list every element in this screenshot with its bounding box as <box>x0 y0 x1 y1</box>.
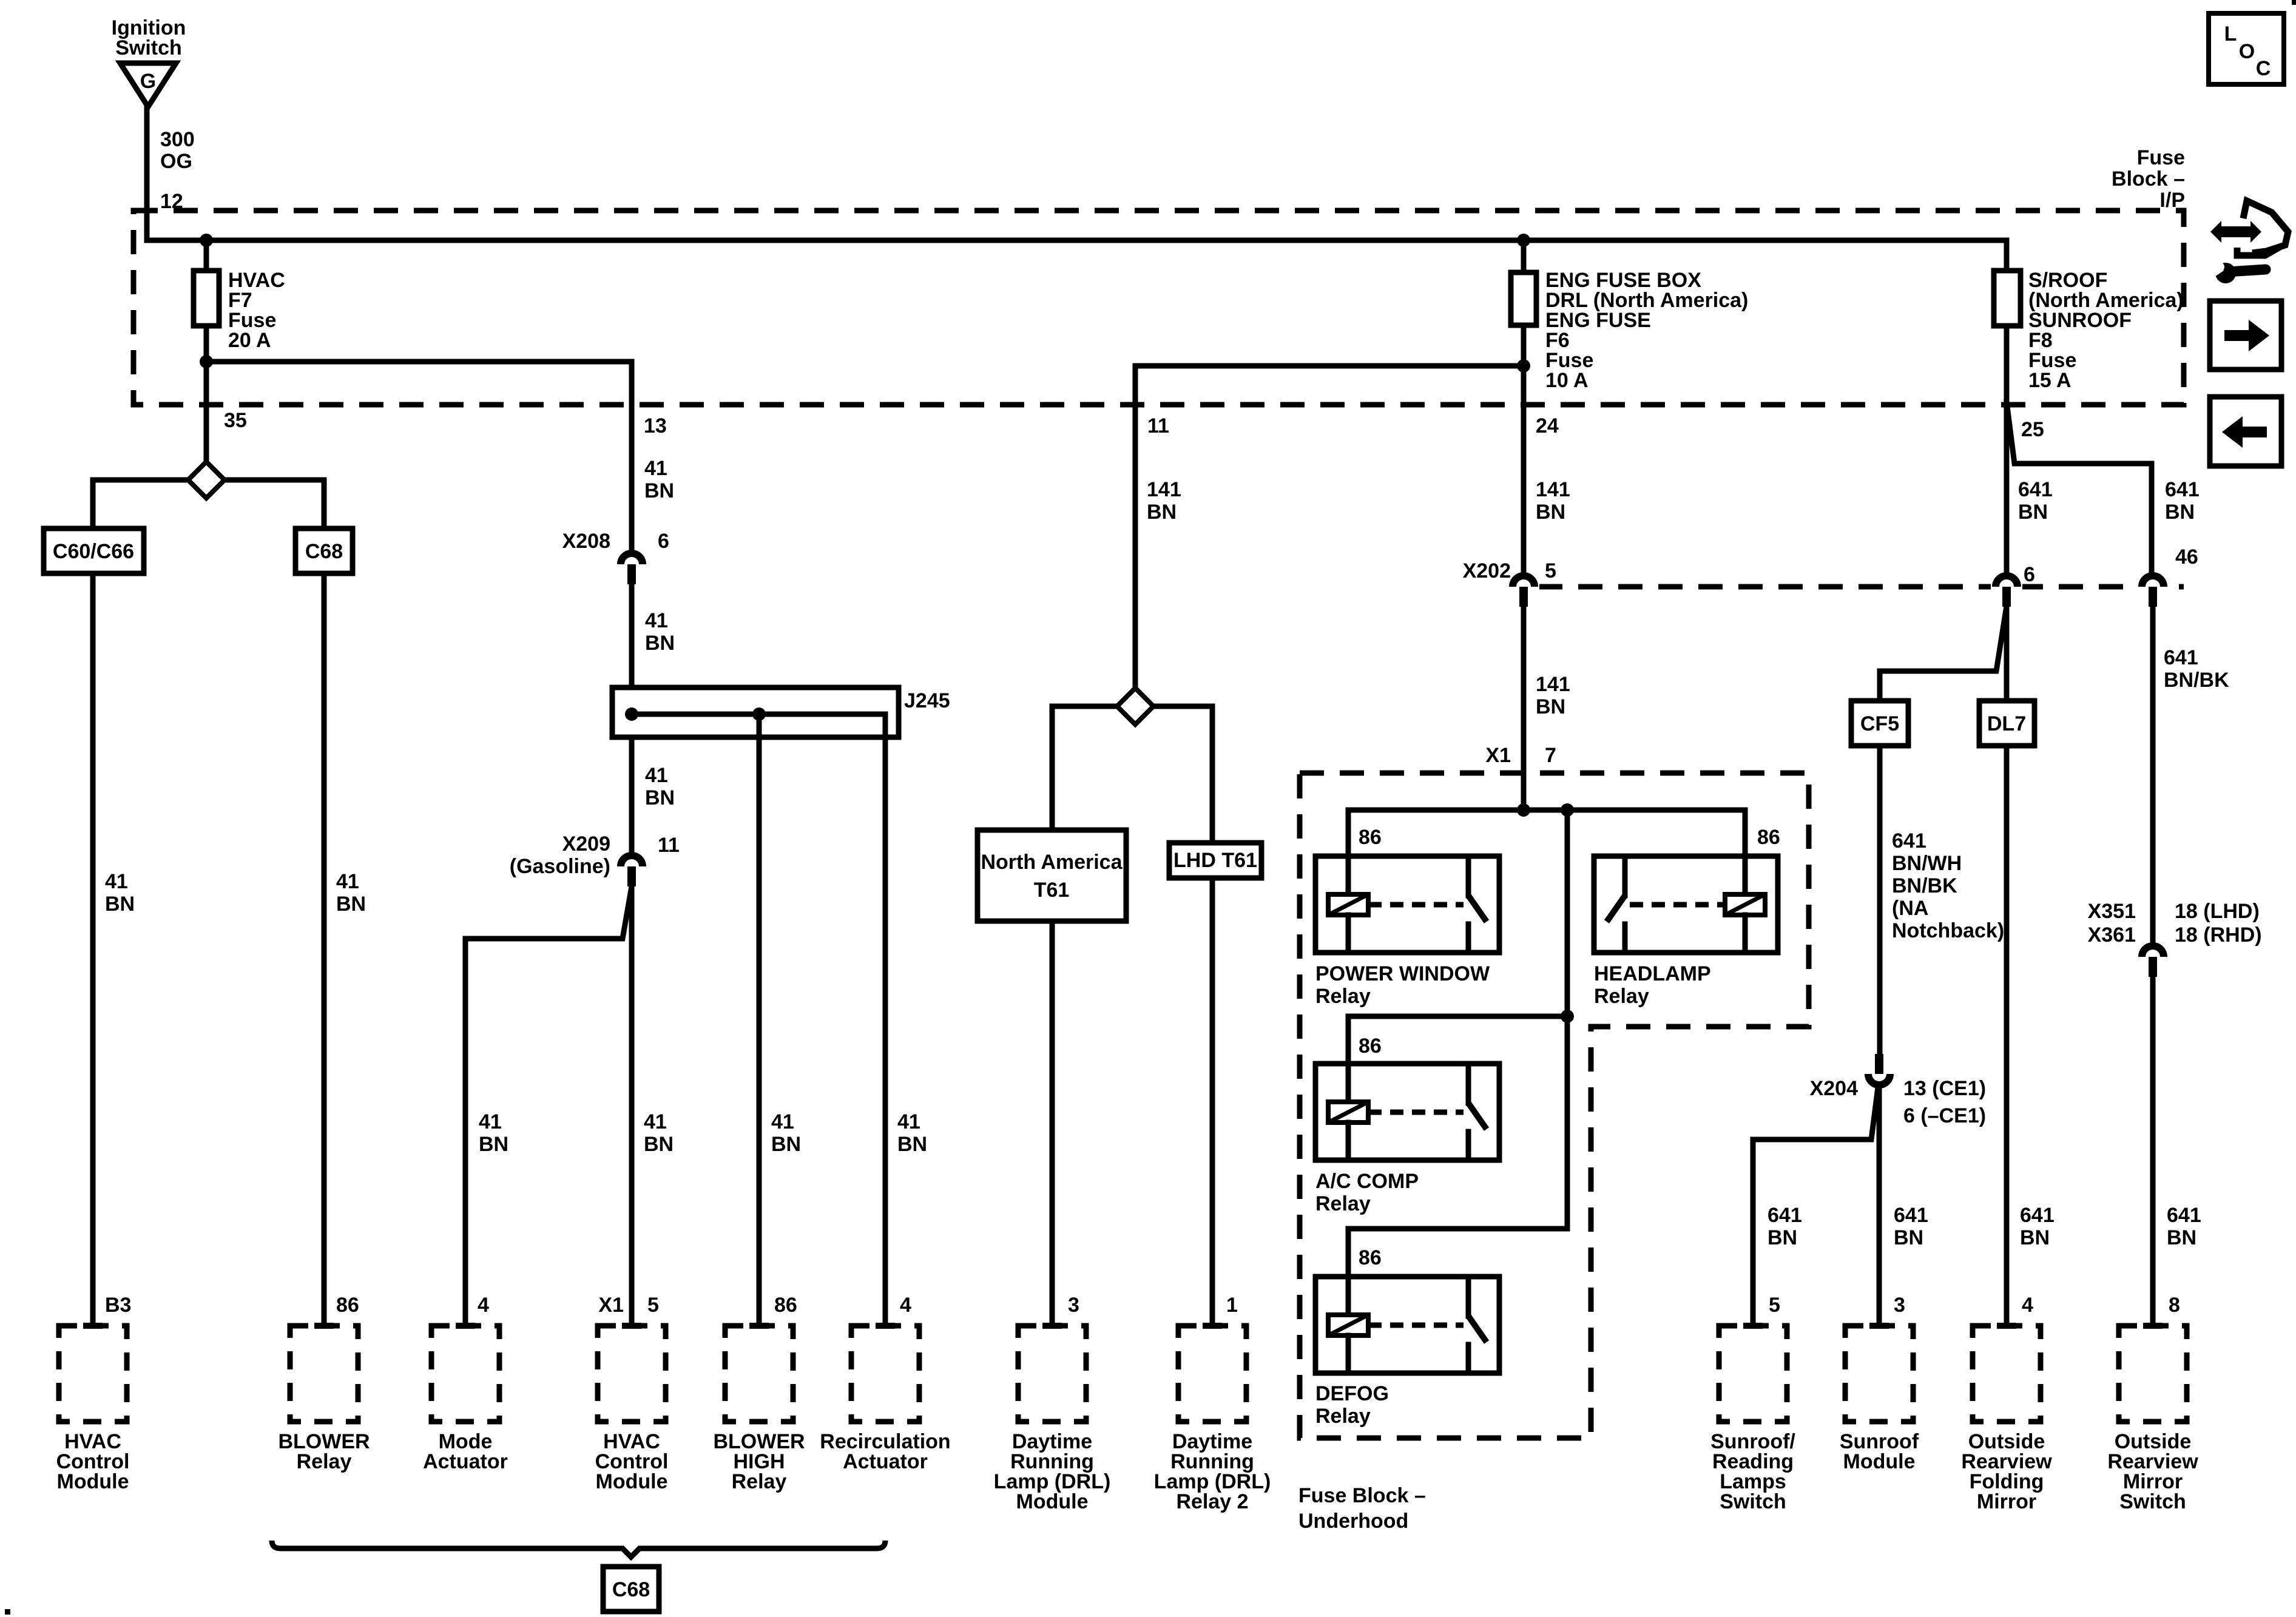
fuse block I/P dashed outline <box>133 211 2184 405</box>
wire NA T61 to DRL module pin 3 <box>1050 921 1055 1326</box>
svg-text:X1: X1 <box>598 1294 624 1317</box>
component HVAC Control Module (B3) <box>59 1326 127 1422</box>
svg-text:Switch: Switch <box>1720 1490 1786 1513</box>
component Sunroof/Reading Lamps Switch <box>1719 1326 1787 1422</box>
svg-text:G: G <box>140 70 156 93</box>
wire fork pin 6 to CF5 <box>1880 610 2006 701</box>
svg-text:L: L <box>2224 22 2237 46</box>
wire X204 to sunroof module <box>1877 1087 1882 1326</box>
component BLOWER HIGH Relay <box>725 1326 793 1422</box>
wire to LHD T61 <box>1210 706 1215 843</box>
splice diamond to C60/C66 and C68 <box>93 478 324 483</box>
connector pin 6 <box>1991 583 2022 590</box>
svg-text:41: 41 <box>645 764 668 787</box>
svg-text:25: 25 <box>2021 418 2044 441</box>
wire X351 to outside rearview mirror switch <box>2150 977 2156 1326</box>
wire to A/C comp relay 86 <box>1348 1014 1567 1019</box>
svg-text:X202: X202 <box>1463 559 1511 582</box>
svg-text:LHD T61: LHD T61 <box>1173 849 1257 872</box>
icon arrow left (previous page) <box>2210 397 2281 466</box>
svg-text:BN: BN <box>1147 501 1177 524</box>
svg-text:5: 5 <box>1769 1294 1780 1317</box>
svg-text:(Gasoline): (Gasoline) <box>510 855 610 878</box>
junction below fuse F6 <box>1517 359 1530 373</box>
J245 junction at blower high relay feed <box>752 707 766 721</box>
svg-text:86: 86 <box>1359 826 1382 849</box>
wire from F6 to pin 11 <box>1135 366 1524 689</box>
svg-text:DL7: DL7 <box>1987 712 2026 735</box>
svg-text:24: 24 <box>1536 414 1559 437</box>
bus wire from pin 12 across fuse block to fuse F8 <box>147 240 2007 271</box>
svg-text:BN: BN <box>105 893 135 916</box>
svg-text:13 (CE1): 13 (CE1) <box>1903 1077 1986 1100</box>
svg-text:X1: X1 <box>1485 744 1511 767</box>
svg-text:Module: Module <box>57 1470 129 1493</box>
junction at fuse F6 <box>1517 234 1530 247</box>
wire below DL7 to outside rearview folding mirror <box>2004 746 2010 1326</box>
svg-text:13: 13 <box>644 414 667 437</box>
wire fork X204 to sunroof/reading lamps switch <box>1753 1087 1878 1326</box>
svg-text:X209: X209 <box>562 832 610 856</box>
fuse F7 HVAC 20A <box>204 240 209 271</box>
svg-text:Relay: Relay <box>1315 985 1371 1008</box>
svg-text:46: 46 <box>2175 545 2198 569</box>
svg-text:C68: C68 <box>305 540 343 563</box>
svg-text:7: 7 <box>1545 744 1556 767</box>
svg-text:I/P: I/P <box>2159 189 2185 212</box>
svg-text:CF5: CF5 <box>1860 712 1899 735</box>
svg-text:41: 41 <box>897 1110 920 1133</box>
connector X351/X361 <box>2137 953 2169 960</box>
component Daytime Running Lamp (DRL) Relay 2 <box>1178 1326 1246 1422</box>
wire to power window relay 86 <box>1346 810 1351 856</box>
component BLOWER Relay <box>290 1326 358 1422</box>
svg-text:BN: BN <box>1536 695 1565 718</box>
svg-text:4: 4 <box>478 1294 489 1317</box>
component HVAC Control Module (X1-5) <box>598 1326 666 1422</box>
svg-text:BN: BN <box>645 786 675 809</box>
svg-text:Mirror: Mirror <box>1977 1490 2036 1513</box>
svg-text:4: 4 <box>2022 1294 2033 1317</box>
svg-text:641: 641 <box>1892 829 1926 852</box>
svg-text:Relay: Relay <box>732 1470 787 1493</box>
svg-text:POWER WINDOW: POWER WINDOW <box>1315 962 1490 985</box>
svg-text:41: 41 <box>771 1110 794 1133</box>
svg-text:BN: BN <box>336 893 366 916</box>
svg-text:141: 141 <box>1147 478 1181 501</box>
component Sunroof Module <box>1845 1326 1913 1422</box>
wire to North America T61 <box>1050 706 1055 830</box>
icon arrow right (next page) <box>2210 301 2281 370</box>
svg-text:BN: BN <box>644 1133 674 1156</box>
svg-text:641: 641 <box>2165 478 2200 501</box>
wire branch from F8 to pin 46 <box>2007 402 2152 573</box>
svg-text:Switch: Switch <box>2119 1490 2186 1513</box>
svg-text:86: 86 <box>1757 826 1780 849</box>
wire below CF5 to X204 <box>1877 746 1883 1053</box>
svg-text:C60/C66: C60/C66 <box>53 540 134 563</box>
option box LHD T61 <box>1169 843 1261 878</box>
C68 connector brace <box>272 1541 885 1557</box>
underhood relay feed bus <box>1348 808 1745 813</box>
svg-text:BN/BK: BN/BK <box>1892 874 1957 897</box>
svg-text:18 (LHD): 18 (LHD) <box>2175 900 2260 923</box>
connector X209 (Gasoline) pin 11 <box>616 863 647 870</box>
svg-text:J245: J245 <box>904 689 950 712</box>
svg-text:641: 641 <box>2164 646 2198 669</box>
svg-text:HEADLAMP: HEADLAMP <box>1594 962 1711 985</box>
svg-text:OG: OG <box>160 150 192 173</box>
fuse F8 SUNROOF 15A <box>1994 271 2021 326</box>
svg-text:Relay: Relay <box>1594 985 1649 1008</box>
option box North America T61 <box>977 830 1126 921</box>
connector X208 pin 6 <box>616 561 647 568</box>
fuse F6 ENG FUSE 10A <box>1521 240 1527 272</box>
svg-text:300: 300 <box>160 128 195 151</box>
svg-text:15 A: 15 A <box>2028 369 2071 392</box>
svg-text:141: 141 <box>1536 673 1570 696</box>
svg-text:BN/WH: BN/WH <box>1892 852 1962 875</box>
svg-text:35: 35 <box>224 409 247 432</box>
option box DL7 <box>1979 701 2034 746</box>
svg-text:Fuse: Fuse <box>2137 146 2185 169</box>
svg-text:C68: C68 <box>612 1578 650 1601</box>
svg-text:DEFOG: DEFOG <box>1315 1382 1389 1405</box>
connector X204 <box>1875 1054 1883 1074</box>
svg-text:41: 41 <box>644 1110 667 1133</box>
svg-text:86: 86 <box>1359 1035 1382 1058</box>
wire X208 to J245 and X209 <box>629 582 635 853</box>
svg-text:BN: BN <box>2018 501 2048 524</box>
wire from F7 to pin 35 <box>204 362 209 462</box>
fuse block underhood dashed outline <box>1300 773 1809 1438</box>
period mark bottom left <box>5 1609 10 1615</box>
svg-text:X208: X208 <box>562 530 610 553</box>
svg-text:T61: T61 <box>1034 879 1070 902</box>
svg-text:Actuator: Actuator <box>843 1450 928 1473</box>
svg-text:BN: BN <box>2167 1226 2196 1249</box>
svg-text:Module: Module <box>1016 1490 1089 1513</box>
junction below fuse F7 <box>200 355 213 368</box>
wire from F7 to pin 13 <box>206 362 632 551</box>
svg-text:Relay 2: Relay 2 <box>1176 1490 1248 1513</box>
wire J245 to blower high relay 86 <box>757 714 762 1326</box>
svg-text:North America: North America <box>981 851 1123 874</box>
svg-text:X361: X361 <box>2088 923 2136 947</box>
svg-text:BN: BN <box>645 632 675 655</box>
wire pin 6 to DL7 <box>2004 607 2010 701</box>
svg-text:Module: Module <box>1843 1450 1916 1473</box>
relay HEADLAMP <box>1594 856 1778 953</box>
svg-text:641: 641 <box>1894 1204 1928 1227</box>
wire 300 OG from ignition switch to fuse block bus <box>144 107 150 240</box>
svg-text:86: 86 <box>1359 1246 1382 1269</box>
svg-text:Actuator: Actuator <box>423 1450 508 1473</box>
svg-text:C: C <box>2256 57 2271 80</box>
component Outside Rearview Mirror Switch <box>2119 1326 2187 1422</box>
wire to C60/C66 <box>90 480 96 528</box>
component Outside Rearview Folding Mirror <box>1973 1326 2041 1422</box>
wire fork X209 to mode actuator <box>465 886 632 1326</box>
connector box C60/C66 <box>44 528 144 573</box>
svg-text:20 A: 20 A <box>228 329 271 352</box>
svg-text:BN: BN <box>771 1133 801 1156</box>
svg-text:641: 641 <box>2018 478 2053 501</box>
component Daytime Running Lamp (DRL) Module <box>1018 1326 1086 1422</box>
relay POWER WINDOW <box>1315 856 1499 953</box>
icon electrical repair (double arrow with body outline and wrench) <box>2210 201 2288 283</box>
svg-text:641: 641 <box>2020 1204 2055 1227</box>
junction at fuse F7 <box>200 234 213 247</box>
ignition switch symbol G (triangle) <box>120 63 176 107</box>
svg-text:BN: BN <box>1894 1226 1923 1249</box>
wire X202 pin 5 to fuse block underhood X1-7 <box>1521 607 1527 810</box>
connector X202 pin 5 <box>1508 583 1539 590</box>
svg-text:Module: Module <box>596 1470 668 1493</box>
wire X209 to HVAC control module X1-5 <box>629 886 635 1326</box>
svg-text:641: 641 <box>1768 1204 1802 1227</box>
svg-text:41: 41 <box>479 1110 502 1133</box>
svg-text:3: 3 <box>1894 1294 1905 1317</box>
wire to C68 header <box>322 480 327 528</box>
svg-text:X351: X351 <box>2088 900 2136 923</box>
svg-text:BN: BN <box>479 1133 508 1156</box>
connector pin 46 <box>2137 583 2169 590</box>
svg-text:BN/BK: BN/BK <box>2164 669 2229 692</box>
wire to defog relay 86 <box>1348 1226 1567 1232</box>
svg-text:Fuse Block –: Fuse Block – <box>1298 1484 1426 1507</box>
svg-text:A/C COMP: A/C COMP <box>1315 1170 1419 1193</box>
J245 internal bus to recirculation actuator <box>632 714 885 1326</box>
svg-text:Relay: Relay <box>1315 1405 1371 1428</box>
svg-text:X204: X204 <box>1810 1077 1858 1100</box>
svg-text:BN: BN <box>2020 1226 2050 1249</box>
component Mode Actuator <box>431 1326 499 1422</box>
connector box C68 footer <box>603 1567 659 1612</box>
svg-text:Underhood: Underhood <box>1298 1510 1408 1533</box>
wire C68 to blower relay 86 <box>322 573 327 1326</box>
svg-text:41: 41 <box>645 609 668 632</box>
svg-text:4: 4 <box>900 1294 911 1317</box>
locator box L O C <box>2209 13 2284 84</box>
wire down to A/C and defog relays <box>1565 810 1570 1229</box>
wire to headlamp relay 86 <box>1743 810 1748 856</box>
connector X202 dashed pass-through line <box>1538 584 2184 590</box>
page corner mark <box>2292 0 2296 5</box>
svg-text:5: 5 <box>647 1294 659 1317</box>
svg-text:Relay: Relay <box>1315 1192 1371 1215</box>
wire LHD T61 to DRL relay 2 pin 1 <box>1210 878 1215 1326</box>
relay DEFOG <box>1315 1277 1499 1373</box>
svg-text:BN: BN <box>1768 1226 1797 1249</box>
J245 junction at X209 feed <box>625 707 638 721</box>
svg-text:141: 141 <box>1536 478 1570 501</box>
svg-text:41: 41 <box>336 870 359 893</box>
svg-text:BN: BN <box>644 479 674 502</box>
wire pin 46 to X351/X361 <box>2150 607 2156 943</box>
relay A/C COMP <box>1315 1064 1499 1160</box>
svg-text:8: 8 <box>2169 1294 2180 1317</box>
svg-text:86: 86 <box>774 1294 797 1317</box>
splice pack J245 <box>612 687 899 737</box>
svg-text:BN: BN <box>897 1133 927 1156</box>
svg-text:5: 5 <box>1545 559 1556 582</box>
svg-text:3: 3 <box>1068 1294 1079 1317</box>
svg-text:Switch: Switch <box>115 36 182 59</box>
svg-text:86: 86 <box>336 1294 359 1317</box>
svg-text:(NA: (NA <box>1892 897 1928 920</box>
connector box C68 header <box>295 528 353 573</box>
svg-text:O: O <box>2239 40 2255 63</box>
svg-text:10 A: 10 A <box>1545 369 1589 392</box>
svg-text:Notchback): Notchback) <box>1892 919 2004 942</box>
wire C60/C66 to HVAC control module B3 <box>90 573 96 1326</box>
svg-text:6 (–CE1): 6 (–CE1) <box>1903 1104 1986 1127</box>
svg-text:6: 6 <box>658 530 669 553</box>
splice diamond to T61 options <box>1052 704 1212 709</box>
svg-text:641: 641 <box>2167 1204 2201 1227</box>
svg-text:11: 11 <box>658 834 680 857</box>
svg-text:B3: B3 <box>105 1294 131 1317</box>
svg-text:6: 6 <box>2024 563 2035 586</box>
svg-text:18 (RHD): 18 (RHD) <box>2175 923 2262 947</box>
svg-text:Block –: Block – <box>2112 167 2185 191</box>
svg-text:41: 41 <box>105 870 128 893</box>
svg-text:1: 1 <box>1226 1294 1238 1317</box>
option box CF5 <box>1851 701 1908 746</box>
svg-text:BN: BN <box>2165 501 2195 524</box>
svg-text:BN: BN <box>1536 501 1565 524</box>
svg-text:Relay: Relay <box>297 1450 352 1473</box>
svg-text:11: 11 <box>1147 414 1169 437</box>
component Recirculation Actuator <box>851 1326 919 1422</box>
svg-text:41: 41 <box>644 457 667 480</box>
